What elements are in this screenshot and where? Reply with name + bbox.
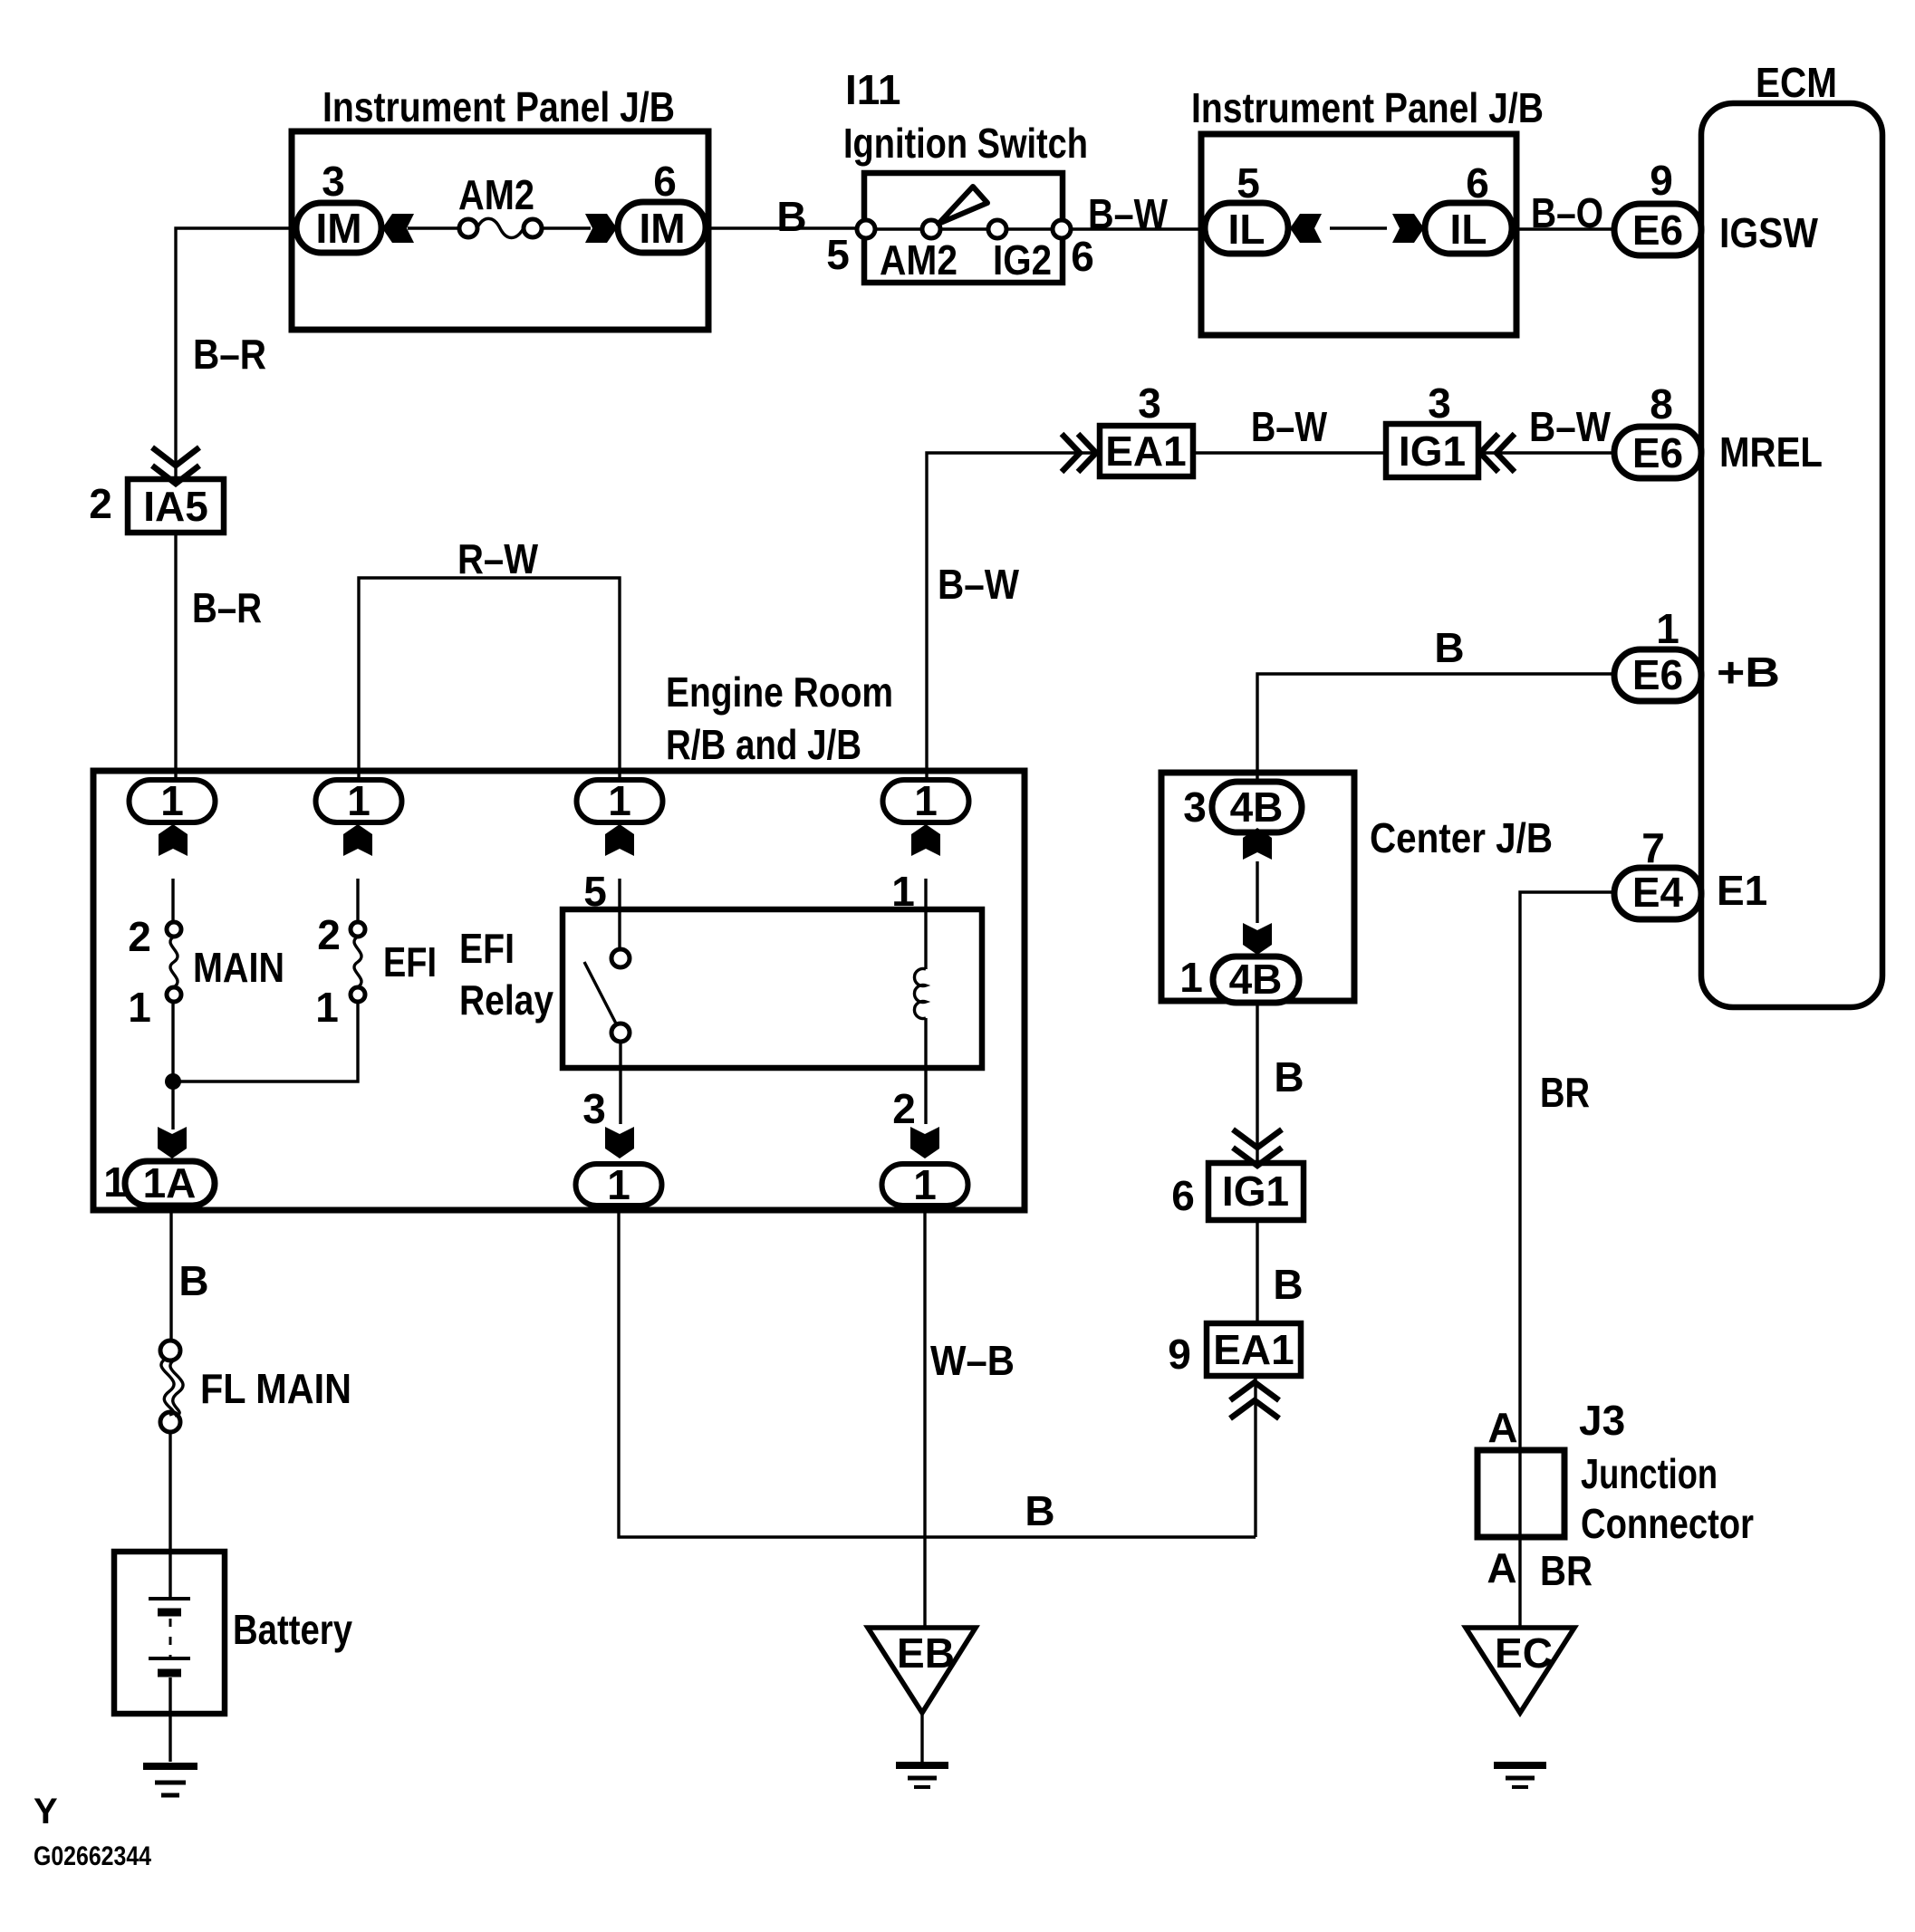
- svg-text:4B: 4B: [1230, 783, 1284, 831]
- splice IG1 pin 3 (MREL row): [1386, 424, 1478, 477]
- wire ignition switch internal: [875, 227, 1053, 230]
- svg-text:B: B: [1434, 624, 1464, 671]
- junction connector J3 box: [1477, 1450, 1564, 1537]
- svg-text:2: 2: [892, 1085, 916, 1132]
- wire EA1 down to long B wire: [1254, 1376, 1256, 1537]
- connector E4 pin 7 E1: [1614, 868, 1701, 919]
- battery dashed middle: [169, 1619, 172, 1658]
- svg-text:Center J/B: Center J/B: [1370, 814, 1553, 861]
- svg-text:Relay: Relay: [459, 976, 553, 1024]
- ignition switch lever: [938, 187, 987, 224]
- svg-text:B–O: B–O: [1531, 189, 1603, 236]
- ignition AM2 contact circle: [922, 220, 940, 238]
- svg-text:1: 1: [1656, 605, 1679, 652]
- svg-text:1: 1: [891, 868, 915, 915]
- svg-text:+B: +B: [1717, 649, 1780, 696]
- battery box: [114, 1552, 225, 1714]
- battery plate short thick top: [158, 1609, 181, 1617]
- connector IL pin 5: [1205, 203, 1288, 254]
- harness arrow up below oval 1: [159, 824, 188, 856]
- svg-text:5: 5: [826, 231, 850, 278]
- svg-text:Ignition Switch: Ignition Switch: [843, 120, 1088, 167]
- harness arrow at IL-5: [1290, 214, 1322, 243]
- svg-text:ECM: ECM: [1756, 59, 1837, 106]
- svg-text:EFI: EFI: [383, 938, 437, 985]
- connector oval below relay pin 2: [882, 1164, 968, 1206]
- svg-text:3: 3: [582, 1085, 606, 1132]
- svg-text:B: B: [178, 1257, 208, 1304]
- fuse MAIN: [167, 922, 181, 937]
- wire AM2 fuse right lead: [542, 226, 591, 229]
- chevrons pointing down above IG1: [1233, 1129, 1282, 1166]
- svg-text:B–R: B–R: [193, 331, 266, 378]
- harness arrow at IM-6: [585, 214, 617, 243]
- svg-text:FL MAIN: FL MAIN: [200, 1365, 351, 1412]
- harness arrow up below oval 3: [605, 824, 634, 856]
- svg-text:IA5: IA5: [143, 483, 208, 530]
- svg-text:2: 2: [128, 913, 151, 960]
- Instrument Panel J/B box (right): [1201, 134, 1516, 335]
- connector oval below relay pin 3: [576, 1164, 662, 1206]
- junction dot: [165, 1073, 181, 1090]
- svg-text:EFI: EFI: [459, 925, 515, 972]
- svg-text:1: 1: [914, 777, 938, 824]
- ignition IG2 contact circle: [988, 220, 1006, 238]
- connector 1A oval: [125, 1161, 215, 1206]
- splice EA1 pin 3 (MREL row): [1100, 426, 1193, 476]
- svg-text:Instrument Panel J/B: Instrument Panel J/B: [322, 83, 675, 130]
- harness arrow up below 4B-3: [1243, 828, 1272, 860]
- svg-text:9: 9: [1168, 1331, 1191, 1378]
- wire +B net: ECM E6-1 left then down to Center J/B 4B-3: [1257, 674, 1614, 782]
- svg-text:6: 6: [653, 158, 677, 205]
- ground triangle EC: [1466, 1628, 1574, 1713]
- svg-text:AM2: AM2: [458, 171, 534, 218]
- svg-text:3: 3: [322, 158, 345, 205]
- svg-text:1: 1: [128, 984, 151, 1031]
- svg-text:IL: IL: [1228, 206, 1265, 253]
- Instrument Panel J/B box (left): [292, 131, 708, 330]
- svg-text:1: 1: [347, 777, 370, 824]
- wire R-W loop EFI fuse to relay pin5: [359, 578, 620, 780]
- svg-text:B: B: [1274, 1053, 1304, 1101]
- svg-text:IG2: IG2: [993, 236, 1052, 284]
- ignition switch I11 box: [864, 173, 1063, 283]
- svg-text:EA1: EA1: [1213, 1326, 1294, 1373]
- svg-text:EA1: EA1: [1105, 428, 1186, 475]
- svg-text:B–W: B–W: [1088, 190, 1168, 237]
- svg-text:6: 6: [1466, 159, 1489, 207]
- svg-text:Battery: Battery: [233, 1606, 352, 1653]
- ground triangle EB: [868, 1628, 976, 1713]
- svg-text:B–W: B–W: [1251, 403, 1327, 450]
- harness arrow down above relay pin2 oval: [910, 1127, 939, 1158]
- wire relay coil to pin2 arrow: [924, 1018, 927, 1124]
- fuse EFI: [351, 922, 365, 937]
- connector oval 1 (above MAIN): [130, 780, 216, 822]
- chevrons pointing right before EA1: [1062, 434, 1096, 472]
- svg-text:8: 8: [1650, 380, 1673, 428]
- svg-text:6: 6: [1071, 233, 1094, 280]
- wire from IM pin3 left and down to IA5: [176, 228, 296, 479]
- svg-text:B: B: [1025, 1487, 1054, 1534]
- wire MREL net: ECM E6-8 to IG1 to EA1 then down to relay coil J/B oval: [927, 453, 1614, 780]
- ground symbol EC: [1494, 1762, 1546, 1769]
- svg-text:MREL: MREL: [1719, 428, 1823, 476]
- Center J/B box: [1161, 773, 1354, 1001]
- svg-text:1: 1: [315, 984, 339, 1031]
- svg-text:1: 1: [103, 1158, 127, 1206]
- svg-text:4B: 4B: [1229, 956, 1283, 1003]
- connector IM pin 3: [296, 203, 381, 253]
- harness arrow down above 4B-1: [1243, 923, 1272, 955]
- wire AM2 fuse left lead: [408, 226, 459, 229]
- ignition terminal 6 circle: [1053, 220, 1071, 238]
- svg-text:1: 1: [607, 1161, 630, 1208]
- svg-text:3: 3: [1138, 380, 1161, 427]
- splice IA5 pin 2: [128, 479, 224, 533]
- wire IG1 to EA1 (B): [1256, 1220, 1258, 1323]
- svg-text:R–W: R–W: [457, 535, 538, 582]
- svg-text:Connector: Connector: [1581, 1500, 1754, 1547]
- svg-text:IM: IM: [639, 205, 685, 252]
- ground symbol EB: [896, 1762, 948, 1769]
- wire EB triangle apex to ground: [920, 1713, 923, 1762]
- battery plate long bottom: [149, 1657, 190, 1660]
- svg-text:G02662344: G02662344: [34, 1841, 151, 1871]
- svg-text:6: 6: [1171, 1172, 1195, 1219]
- svg-text:IL: IL: [1450, 206, 1487, 253]
- harness arrow up below oval 4: [911, 824, 940, 856]
- svg-text:Engine Room: Engine Room: [666, 668, 893, 716]
- harness arrow down above 1A oval: [158, 1127, 187, 1158]
- svg-text:5: 5: [1237, 159, 1260, 207]
- svg-text:B–W: B–W: [938, 561, 1020, 608]
- svg-text:I11: I11: [845, 66, 900, 113]
- svg-text:IG1: IG1: [1399, 428, 1466, 475]
- wire EFI fuse bottom to junction dot: [178, 1002, 358, 1081]
- connector E6 pin 9 IGSW: [1614, 204, 1701, 255]
- wire IM pin6 to ignition switch terminal 5: [706, 226, 857, 229]
- svg-text:AM2: AM2: [880, 236, 957, 284]
- svg-text:IG1: IG1: [1222, 1168, 1289, 1215]
- connector 4B pin 3: [1212, 782, 1302, 832]
- wire relay switch to pin3 arrow: [619, 1042, 621, 1124]
- ECM box: [1701, 103, 1882, 1007]
- ground below battery: [143, 1763, 197, 1770]
- svg-text:A: A: [1487, 1404, 1517, 1451]
- ignition terminal 5 circle: [857, 220, 875, 238]
- svg-text:Junction: Junction: [1581, 1450, 1718, 1497]
- svg-text:1: 1: [608, 777, 631, 824]
- connector IL pin 6: [1425, 203, 1512, 254]
- wire E1 net: ECM E4-7 left, down through J3 to EC ground: [1520, 892, 1612, 1628]
- relay switch contact bottom: [611, 1024, 630, 1042]
- svg-text:7: 7: [1641, 824, 1665, 871]
- relay switch blade: [584, 962, 616, 1024]
- fuse AM2: [459, 219, 477, 237]
- connector 4B pin 1: [1213, 956, 1299, 1003]
- Engine Room R/B and J/B box: [93, 771, 1025, 1210]
- wire MAIN fuse to junction dot to 1A arrow: [171, 1002, 174, 1129]
- EFI relay box: [563, 909, 982, 1068]
- battery plate long top: [149, 1597, 190, 1600]
- harness arrow at IM-3: [382, 214, 414, 243]
- svg-text:E6: E6: [1632, 429, 1683, 476]
- wire relay pin3 oval down and right to EA1 junction (B): [619, 1206, 1256, 1537]
- wire 1A oval to FL MAIN: [169, 1206, 172, 1341]
- svg-text:2: 2: [89, 480, 112, 527]
- svg-text:BR: BR: [1540, 1547, 1593, 1594]
- svg-text:IGSW: IGSW: [1719, 209, 1819, 256]
- svg-text:E6: E6: [1632, 651, 1683, 698]
- svg-text:MAIN: MAIN: [193, 944, 284, 991]
- chevrons pointing left after IG1: [1480, 434, 1515, 472]
- relay coil: [914, 968, 926, 1018]
- wire between IL connectors: [1330, 226, 1387, 229]
- relay switch contact top: [611, 949, 630, 967]
- svg-text:E1: E1: [1717, 867, 1767, 914]
- fusible link FL MAIN: [160, 1341, 180, 1360]
- wire ignition switch terminal 6 to IL pin5: [1071, 227, 1205, 230]
- svg-text:E4: E4: [1632, 869, 1684, 916]
- wire relay coil pin1 oval to coil: [924, 879, 927, 969]
- harness arrow at IL-6: [1392, 214, 1424, 243]
- wire Center J/B internal between 4B ovals: [1256, 861, 1258, 923]
- connector E6 pin 1 +B: [1614, 649, 1701, 701]
- svg-text:R/B and J/B: R/B and J/B: [666, 721, 861, 768]
- wire Center J/B 4B-1 down to IG1: [1256, 1003, 1258, 1163]
- svg-text:B–R: B–R: [192, 584, 262, 631]
- svg-text:J3: J3: [1579, 1397, 1625, 1444]
- wire oval2 to EFI fuse: [356, 879, 359, 922]
- svg-text:1A: 1A: [143, 1159, 197, 1206]
- wire relay pin5 oval to switch: [618, 879, 621, 949]
- svg-text:EB: EB: [897, 1629, 955, 1677]
- svg-text:2: 2: [317, 911, 341, 958]
- svg-text:B: B: [776, 193, 806, 240]
- svg-text:3: 3: [1428, 380, 1451, 427]
- wire FL MAIN to battery: [168, 1432, 171, 1598]
- connector IM pin 6: [618, 202, 706, 253]
- battery plate short thick bottom: [158, 1669, 181, 1677]
- svg-text:Instrument Panel J/B: Instrument Panel J/B: [1191, 84, 1544, 131]
- svg-text:W–B: W–B: [930, 1337, 1015, 1384]
- wire IL pin6 to ECM IGSW: [1512, 227, 1614, 230]
- wire battery to ground: [168, 1677, 171, 1762]
- connector oval 2 (above EFI): [316, 780, 402, 822]
- splice EA1 pin 9: [1207, 1323, 1301, 1376]
- svg-text:B: B: [1273, 1261, 1303, 1308]
- harness arrow down above relay pin3 oval: [605, 1127, 634, 1158]
- svg-text:Y: Y: [34, 1792, 58, 1831]
- wire oval1 to MAIN fuse: [171, 879, 174, 922]
- svg-text:B–W: B–W: [1529, 403, 1612, 450]
- svg-text:E6: E6: [1632, 207, 1683, 254]
- svg-text:A: A: [1487, 1544, 1516, 1591]
- connector E6 pin 8 MREL: [1614, 427, 1701, 478]
- svg-text:1: 1: [913, 1161, 937, 1208]
- svg-text:3: 3: [1183, 783, 1207, 831]
- chevrons pointing up below EA1: [1230, 1382, 1279, 1418]
- svg-text:BR: BR: [1540, 1069, 1590, 1116]
- wire W-B relay pin2 oval to EB ground: [923, 1206, 926, 1628]
- chevrons pointing down above IA5: [152, 447, 199, 484]
- harness arrow up below oval 2: [343, 824, 372, 856]
- svg-text:5: 5: [583, 868, 607, 915]
- svg-text:IM: IM: [315, 205, 361, 252]
- svg-text:1: 1: [1179, 954, 1203, 1001]
- svg-text:9: 9: [1650, 157, 1673, 204]
- connector oval 4 (above relay coil): [883, 780, 969, 822]
- splice IG1 pin 6: [1208, 1163, 1304, 1220]
- connector oval 3 (above relay pin5): [577, 780, 663, 822]
- wire IA5 to Engine Room J/B oval: [174, 533, 177, 780]
- svg-text:1: 1: [160, 777, 184, 824]
- svg-text:EC: EC: [1495, 1629, 1553, 1677]
